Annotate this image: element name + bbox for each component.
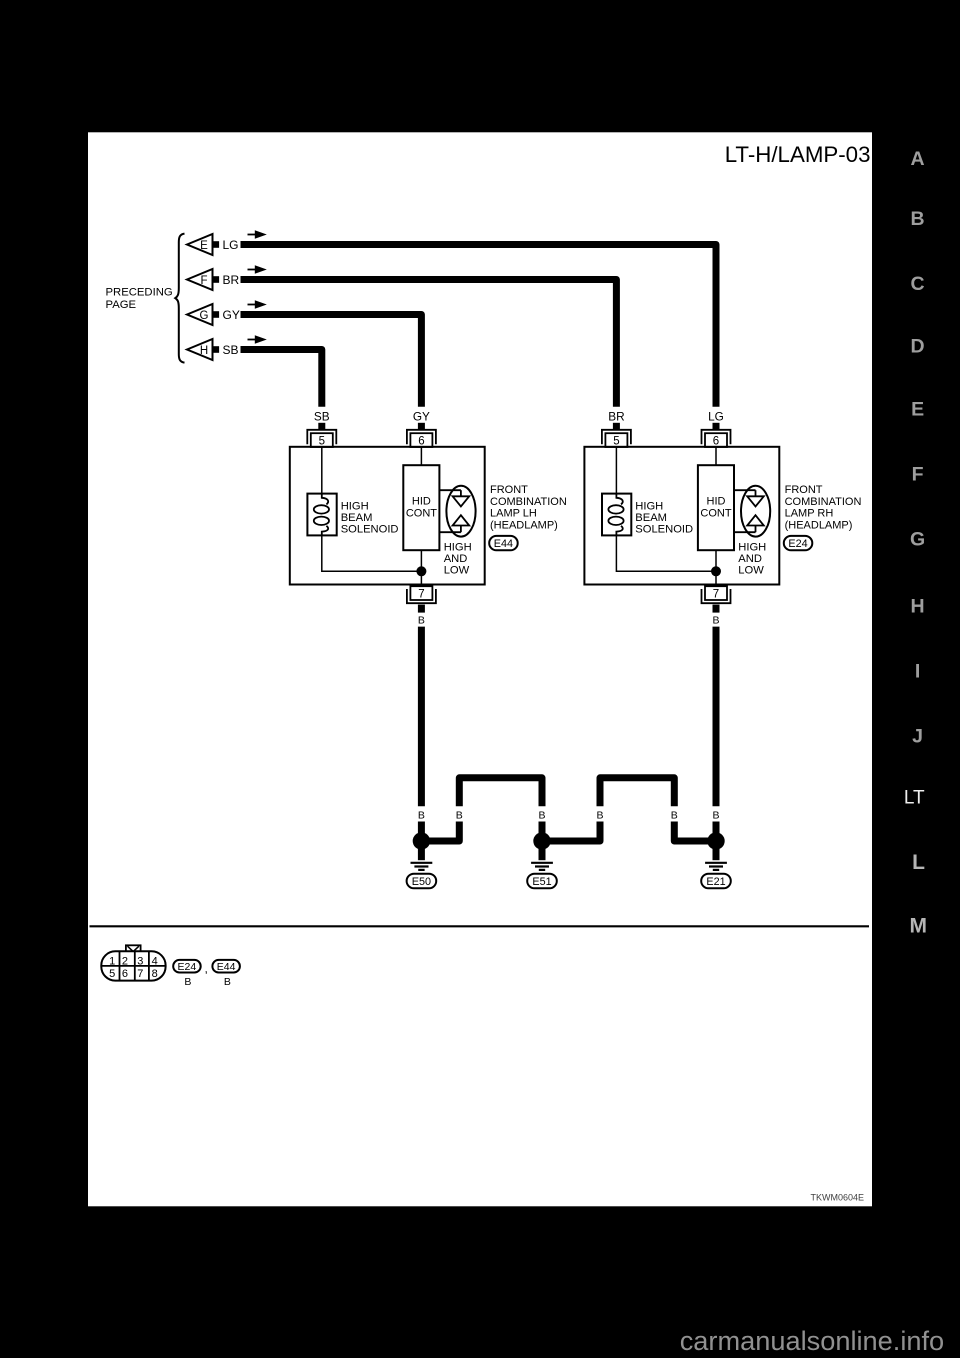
svg-text:H: H [200,345,208,357]
wire solenoid to junction [322,535,422,571]
ground junction dot at E21 [707,832,724,849]
svg-text:E21: E21 [706,876,725,888]
connector arrow G (from preceding page) [187,304,219,325]
svg-text:I: I [915,661,920,683]
svg-text:B: B [538,809,545,821]
svg-text:LOW: LOW [738,565,764,577]
wire stub below pin 7 [418,605,425,613]
svg-text:4: 4 [152,955,158,967]
svg-text:PRECEDING: PRECEDING [106,287,173,299]
ground code E51 [527,874,557,889]
xenon bulb (high and low) LH [439,486,475,537]
front combination lamp RH box [584,447,779,585]
svg-text:A: A [911,148,925,170]
legend connector code E44 [212,960,240,988]
svg-text:AND: AND [738,553,762,565]
wire LG from connector E to lamp pin [241,245,717,407]
svg-text:B: B [456,809,463,821]
svg-text:BR: BR [223,273,240,287]
wire label BR [223,273,240,287]
ground junction dot at E50 [413,832,430,849]
index letter M [909,914,927,937]
wire stub into pin connector [713,423,720,430]
svg-text:AND: AND [444,553,468,565]
junction dot [416,566,426,576]
svg-text:FRONT: FRONT [785,484,823,496]
wire color label B [456,809,463,821]
jumper wire leg to E51 dot (from 600) [547,822,600,842]
svg-text:G: G [910,528,925,550]
jumper wire leg to E21 dot [674,822,711,842]
flow arrow above wire GY [248,300,267,309]
watermark carmanualsonline.info [680,1325,944,1356]
connector face legend (8-pin housing) [101,951,165,980]
svg-text:COMBINATION: COMBINATION [490,496,567,508]
jumper wire leg to E51 dot [539,822,546,837]
front combination lamp LH box [290,447,485,585]
wire color label GY above pin [413,409,430,423]
svg-text:3: 3 [137,955,143,967]
wire pin6 to HID CONT [420,447,422,465]
svg-text:7: 7 [713,589,719,601]
HID CONT unit LH [403,465,439,550]
svg-text:2: 2 [122,955,128,967]
wire GY from connector G to lamp pin [241,315,422,407]
connector code E44 [489,536,518,550]
svg-text:F: F [912,463,924,485]
svg-text:SB: SB [223,343,239,357]
svg-text:GY: GY [223,308,240,322]
svg-text:E44: E44 [217,961,236,973]
svg-text:SOLENOID: SOLENOID [341,524,399,536]
label FRONT COMBINATION LAMP RH (HEADLAMP) [785,484,862,531]
svg-text:LG: LG [223,238,239,252]
junction dot [711,566,721,576]
svg-text:H: H [911,596,925,618]
wire stub into pin connector [613,423,620,430]
flow arrow above wire SB [248,335,267,344]
svg-text:D: D [911,336,925,358]
svg-text:B: B [418,614,425,626]
pin 6 connector (top of lamp box) [407,430,436,448]
svg-text:FRONT: FRONT [490,484,528,496]
svg-text:LAMP LH: LAMP LH [490,507,537,519]
svg-text:CONT: CONT [406,507,437,519]
svg-text:GY: GY [413,409,430,423]
svg-text:7: 7 [418,589,424,601]
jumper wire E50 to E51 (upper) [459,778,542,806]
jumper wire leg to E50 dot [426,822,459,842]
svg-text:B: B [418,809,425,821]
comma between codes [205,962,208,976]
wire color label LG above pin [708,409,724,423]
label HIGH AND LOW [444,542,472,577]
svg-text:PAGE: PAGE [106,299,137,311]
wire pin6 to HID CONT [715,447,717,465]
diagram title LT-H/LAMP-03 [725,142,871,167]
wire color label B [712,809,719,821]
svg-text:E24: E24 [178,961,197,973]
wire color label SB above pin [314,409,330,423]
svg-text:HIGH: HIGH [738,542,766,554]
ground symbol E51 [531,848,553,870]
ground wire from RH pin 7 [713,627,720,807]
wire HID CONT to pin 7 [420,550,422,586]
svg-text:E: E [911,398,924,420]
pin 7 connector (bottom of lamp box) [407,586,436,603]
wire solenoid to junction [616,535,716,571]
svg-text:B: B [184,976,191,988]
wire pin5 to solenoid [321,447,323,494]
svg-text:F: F [200,275,207,287]
curly brace grouping preceding-page connectors [175,234,184,363]
svg-text:LG: LG [708,409,724,423]
separator line above connector legend [90,925,870,927]
svg-text:6: 6 [122,968,128,980]
pin 6 connector (top of lamp box) [702,430,731,448]
svg-text:,: , [205,962,208,976]
flow arrow above wire LG [248,230,267,239]
ground wire from LH pin 7 [418,627,425,807]
svg-text:LT-H/LAMP-03: LT-H/LAMP-03 [725,142,871,167]
ground symbol E50 [411,848,433,870]
svg-text:LOW: LOW [444,565,470,577]
connector arrow F (from preceding page) [187,269,219,290]
svg-text:LT: LT [904,787,925,808]
xenon bulb (high and low) RH [734,486,770,537]
figure code TKWM0604E [810,1193,864,1203]
svg-text:HIGH: HIGH [635,501,663,513]
pin 5 connector (top of lamp box) [602,430,631,448]
svg-text:5: 5 [109,968,115,980]
wire stub into pin connector [418,423,425,430]
svg-text:J: J [912,725,923,747]
svg-text:B: B [712,809,719,821]
connector arrow E (from preceding page) [187,234,219,255]
wire HID CONT to pin 7 [715,550,717,586]
jumper wire E51 to E21 (upper) [600,778,674,806]
label HIGH BEAM SOLENOID [341,501,399,536]
label FRONT COMBINATION LAMP LH (HEADLAMP) [490,484,567,531]
svg-text:(HEADLAMP): (HEADLAMP) [490,519,558,531]
ground code E50 [407,874,437,889]
svg-text:G: G [200,310,209,322]
wire SB from connector H to lamp pin [241,350,322,407]
svg-text:CONT: CONT [700,507,731,519]
svg-text:HID: HID [412,496,431,508]
svg-text:COMBINATION: COMBINATION [785,496,862,508]
wire pin5 to solenoid [615,447,617,494]
ground junction dot at E51 [533,832,550,849]
svg-text:C: C [911,273,925,295]
HID CONT unit RH [698,465,734,550]
connector face legend (8-pin) key mark [126,945,141,952]
svg-text:B: B [911,208,925,230]
label HIGH BEAM SOLENOID [635,501,693,536]
svg-text:SOLENOID: SOLENOID [635,524,693,536]
ground wire stub above E50 dot [418,822,425,837]
svg-text:E44: E44 [494,538,513,550]
svg-text:L: L [912,851,925,874]
wire color label BR above pin [608,409,624,423]
svg-text:B: B [224,976,231,988]
svg-text:E: E [200,240,208,252]
svg-text:TKWM0604E: TKWM0604E [810,1193,864,1203]
high beam solenoid RH [602,494,631,536]
wire BR from connector F to lamp pin [241,280,617,407]
section code LT [904,787,925,808]
label HIGH AND LOW [738,542,766,577]
svg-text:(HEADLAMP): (HEADLAMP) [785,519,853,531]
wire stub into pin connector [318,423,325,430]
label PRECEDING PAGE [106,287,173,311]
page index letters [910,148,925,748]
wire color label B [596,809,603,821]
svg-text:E24: E24 [788,538,807,550]
svg-text:E51: E51 [532,876,551,888]
index letter L [912,851,925,874]
wire label GY [223,308,240,322]
svg-text:BEAM: BEAM [341,512,373,524]
svg-text:HIGH: HIGH [444,542,472,554]
svg-text:LAMP RH: LAMP RH [785,507,834,519]
connector arrow H (from preceding page) [187,339,219,360]
wire color label B [418,809,425,821]
white diagram panel [88,132,872,1206]
svg-text:B: B [671,809,678,821]
svg-text:BR: BR [608,409,624,423]
flow arrow above wire BR [248,265,267,274]
wire color label B [712,614,719,626]
svg-text:carmanualsonline.info: carmanualsonline.info [680,1325,944,1356]
wire label LG [223,238,239,252]
wire label SB [223,343,239,357]
ground code E21 [701,874,731,889]
svg-text:M: M [909,914,927,937]
svg-text:HID: HID [707,496,726,508]
wire color label B [538,809,545,821]
svg-text:B: B [712,614,719,626]
wire color label B [671,809,678,821]
pin 5 connector (top of lamp box) [307,430,336,448]
ground wire stub above E21 dot [713,822,720,837]
svg-text:E50: E50 [412,876,431,888]
svg-text:SB: SB [314,409,330,423]
svg-text:7: 7 [137,968,143,980]
legend connector code E24 [173,960,201,988]
high beam solenoid LH [307,494,336,536]
svg-text:HIGH: HIGH [341,501,369,513]
pin 7 connector (bottom of lamp box) [702,586,731,603]
ground symbol E21 [705,848,727,870]
wire color label B [418,614,425,626]
svg-text:1: 1 [109,955,115,967]
wire stub below pin 7 [713,605,720,613]
connector code E24 [784,536,813,550]
svg-text:B: B [596,809,603,821]
svg-text:8: 8 [152,968,158,980]
svg-text:BEAM: BEAM [635,512,667,524]
